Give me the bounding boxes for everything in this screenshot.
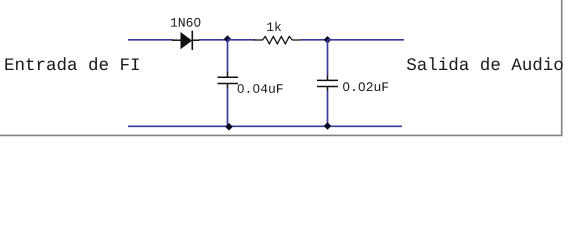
wire top rail between diode and node A: [199, 39, 228, 41]
junction dot at bottom of C2: [324, 122, 332, 130]
diode D1: [172, 31, 200, 50]
node Entrada de FI (input label): [5, 57, 138, 70]
wire vertical from C2 down to bottom rail: [327, 91, 329, 127]
wire vertical from C1 down to bottom rail: [227, 88, 229, 127]
node B junction dot (top of C2): [324, 36, 332, 44]
wire bottom rail: [128, 125, 402, 127]
wire vertical from node B down to C2: [327, 40, 329, 76]
wire top rail right segment: [328, 39, 405, 41]
node A junction dot (top of C1): [224, 35, 232, 43]
label 0.04uF: [238, 84, 283, 93]
wire top rail between resistor and node B: [301, 39, 328, 41]
wire top rail between node A and resistor: [228, 39, 256, 41]
label 0.02uF: [343, 82, 388, 91]
capacitor C1: [218, 72, 239, 88]
wire top rail left segment: [128, 39, 173, 41]
wire vertical from node A down to C1: [227, 40, 229, 73]
junction dot at bottom of C1: [225, 123, 233, 131]
label 1N60: [171, 18, 201, 27]
capacitor C2: [317, 76, 338, 92]
resistor R1: [254, 37, 302, 44]
label 1k: [267, 22, 281, 31]
node Salida de Audio (output label): [407, 57, 563, 70]
